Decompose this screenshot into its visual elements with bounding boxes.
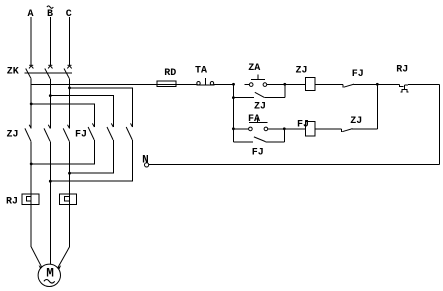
wire ZJ pole C output (69, 141, 71, 247)
contactor FJ main contact pole 1 (88, 123, 94, 139)
node B (47, 9, 53, 20)
node N terminal (145, 163, 149, 167)
contactor ZJ main contact pole 1 (25, 125, 31, 142)
svg-text:M: M (46, 266, 54, 281)
contact FJ auxiliary self-holding (NO) (233, 129, 284, 142)
svg-text:C: C (66, 9, 72, 20)
pushbutton TA (stop, NC) (196, 78, 233, 85)
wire feeder from A to FJ pole 1 (31, 104, 94, 127)
contact ZJ interlock (NC) (342, 129, 378, 132)
node junction on line A (30, 163, 33, 166)
wire phase C below ZK (69, 79, 71, 129)
node junction phase B feeder (49, 94, 52, 97)
arrowhead motor lead right (58, 265, 61, 269)
wire ZJ pole B output (49, 141, 51, 264)
svg-text:TA: TA (195, 66, 207, 77)
contactor FJ main contact pole 2 (107, 123, 113, 139)
wire reverse branch up to rail (376, 84, 378, 129)
svg-text:FJ: FJ (252, 148, 264, 159)
wire FJ pole 3 to line B (50, 140, 132, 181)
wire FJ pole 2 to line C (70, 140, 114, 173)
wire bottom rail to N (149, 163, 440, 165)
relay coil FJ (306, 122, 342, 136)
svg-text:ZK: ZK (7, 67, 19, 78)
svg-text:ZJ: ZJ (6, 130, 18, 141)
motor M (38, 264, 60, 286)
svg-text:FJ: FJ (297, 119, 309, 130)
svg-text:RJ: RJ (396, 64, 408, 75)
node junction control branch (232, 83, 235, 86)
pushbutton FA (start reverse, NO) (249, 118, 306, 131)
svg-text:FJ: FJ (75, 130, 87, 141)
node junction on line C (68, 172, 71, 175)
node junction after ZA (283, 83, 286, 86)
wire control feed from phase A (31, 83, 176, 85)
wire heater C to motor (58, 247, 70, 268)
svg-text:FA: FA (248, 114, 260, 125)
svg-text:ZJ: ZJ (295, 66, 307, 77)
pushbutton ZA (start forward, NO) (249, 75, 305, 87)
relay coil ZJ (305, 78, 343, 91)
node junction before RJ (376, 83, 379, 86)
wire phase B drop (49, 17, 51, 65)
node junction FA branch (232, 127, 235, 130)
svg-text:RD: RD (164, 68, 176, 79)
svg-text:ZJ: ZJ (350, 116, 362, 127)
switch ZK pole 1 (26, 65, 34, 79)
contactor FJ main contact pole 3 (126, 123, 132, 139)
node junction phase A feeder (30, 103, 33, 106)
wire phase A drop (30, 17, 32, 65)
switch ZK linkage bar (25, 72, 73, 74)
wire phase B below ZK (49, 79, 51, 129)
wire right rail (438, 84, 440, 164)
contactor ZJ main contact pole 3 (63, 125, 69, 142)
wire to FA (233, 128, 248, 130)
svg-text:RJ: RJ (6, 196, 18, 207)
svg-text:A: A (27, 9, 33, 20)
node junction after FA (283, 127, 286, 130)
wire stub before ZA (244, 83, 249, 85)
wire to RJ contact (377, 83, 399, 85)
wire phase C drop (69, 17, 71, 65)
wire feeder from B to FJ pole 2 (50, 96, 113, 127)
wire feeder from C to FJ pole 3 (70, 88, 133, 127)
thermal relay RJ heater element phase A (22, 194, 39, 205)
svg-text:N: N (142, 154, 149, 166)
wire phase A below ZK (30, 79, 32, 129)
wire ZJ pole A output (30, 141, 32, 247)
switch ZK pole 2 (45, 65, 53, 79)
thermal relay RJ heater element phase C (60, 194, 77, 205)
node junction phase C feeder (68, 87, 71, 90)
node junction selfhold ZJ (232, 96, 235, 99)
arrowhead motor lead left (39, 265, 42, 269)
wire branch vertical left (232, 84, 234, 129)
wire FJ pole 1 to line A (31, 140, 94, 164)
contact FJ interlock (NC) (343, 84, 377, 87)
wire selfhold FJ branch vertical (232, 129, 234, 142)
contact ZJ auxiliary self-holding (NO) (233, 84, 284, 97)
node junction on line B (49, 180, 52, 183)
fuse RD (157, 81, 196, 87)
svg-text:FJ: FJ (352, 69, 364, 80)
svg-text:ZJ: ZJ (254, 102, 266, 113)
contactor ZJ main contact pole 2 (44, 125, 50, 142)
switch ZK pole 3 (64, 65, 72, 79)
thermal relay RJ contact (NC) (399, 84, 439, 92)
wire heater A to motor (31, 247, 42, 267)
svg-text:ZA: ZA (248, 63, 260, 74)
